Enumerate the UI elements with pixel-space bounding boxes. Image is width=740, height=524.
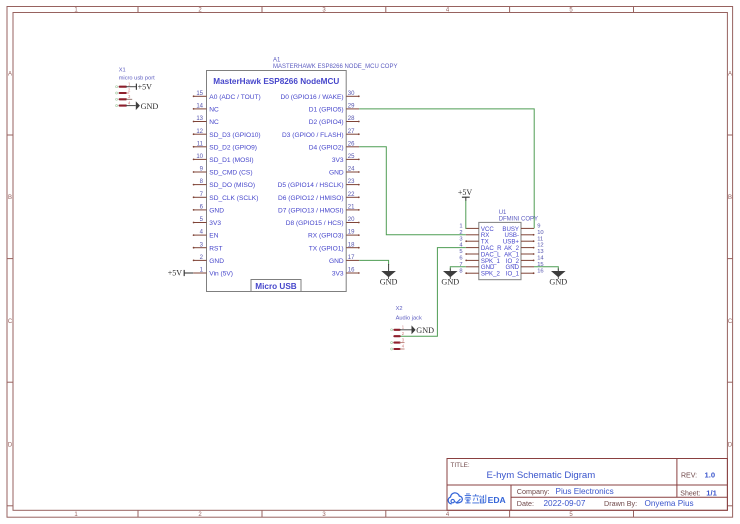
title block field Sheet (680, 488, 717, 497)
title block field TITLE (451, 462, 596, 481)
svg-text:13: 13 (196, 116, 203, 122)
U1 pin 5 (DAC_L) (459, 249, 501, 258)
svg-text:21: 21 (348, 205, 355, 211)
svg-text:12: 12 (537, 243, 543, 249)
svg-text:B: B (8, 195, 12, 201)
svg-text:MasterHawk ESP8266 NodeMCU: MasterHawk ESP8266 NodeMCU (213, 77, 339, 86)
svg-text:23: 23 (348, 179, 355, 185)
X2 pin 3 (391, 337, 405, 343)
A1 pin 24 (GND) (329, 167, 360, 177)
A1 pin 21 (D7 (GPIO13 / HMOSI)) (278, 205, 360, 215)
title block (447, 459, 727, 511)
svg-text:GND: GND (209, 208, 224, 215)
A1 pin 13 (NC) (193, 116, 219, 126)
svg-text:EN: EN (209, 233, 218, 240)
svg-text:12: 12 (196, 129, 203, 135)
svg-text:+5V: +5V (168, 269, 183, 278)
svg-text:3V3: 3V3 (209, 220, 221, 227)
ground flag GND on X1 pin 4 (126, 101, 158, 111)
svg-text:24: 24 (348, 167, 355, 173)
title block field Company (517, 487, 614, 496)
svg-text:1: 1 (459, 224, 462, 230)
svg-text:SD_D3 (GPIO10): SD_D3 (GPIO10) (209, 132, 260, 139)
svg-text:1.0: 1.0 (705, 471, 716, 480)
svg-text:16: 16 (348, 268, 355, 274)
svg-text:RST: RST (209, 245, 222, 252)
X1 pin 3 (116, 94, 133, 100)
U1 pin 1 (VCC) (459, 224, 494, 233)
A1 pin 4 (EN) (193, 230, 219, 240)
svg-text:D7 (GPIO13 / HMOSI): D7 (GPIO13 / HMOSI) (278, 208, 344, 215)
svg-text:3V3: 3V3 (332, 271, 344, 278)
svg-text:D: D (728, 442, 733, 448)
U1 pin 8 (SPK_2) (459, 268, 500, 277)
svg-text:20: 20 (348, 217, 355, 223)
U1 pin 3 (TX) (459, 236, 488, 245)
svg-text:D8 (GPIO15 / HCS): D8 (GPIO15 / HCS) (286, 220, 344, 227)
svg-text:17: 17 (348, 255, 355, 261)
wire net: A1 pin 26 D4 to U1 pin 2 RX (359, 147, 466, 235)
svg-text:NC: NC (209, 119, 219, 126)
svg-text:3V3: 3V3 (332, 157, 344, 164)
Micro USB sub-symbol box (251, 280, 301, 292)
wire: +5V flag to U1 pin 1 VCC (465, 201, 468, 229)
svg-text:Vin (5V): Vin (5V) (209, 271, 233, 278)
wire net: U1 pin 4 DAC_R to X2 pin 2 (400, 248, 466, 337)
svg-text:GND: GND (329, 258, 344, 265)
X1 pin 1 (116, 81, 131, 87)
U1 pin 14 (IO_2) (506, 256, 545, 265)
A1 pin 8 (SD_DO (MISO)) (193, 179, 255, 189)
svg-text:SD_CLK (SCLK): SD_CLK (SCLK) (209, 195, 258, 202)
U1 pin 9 (BUSY) (502, 224, 540, 233)
X1 pin 2 (116, 88, 131, 94)
svg-text:11: 11 (197, 141, 204, 147)
U1 pin 12 (AK_2) (504, 243, 544, 252)
A1 pin 1 (Vin (5V)) (193, 268, 233, 278)
svg-text:TX (GPIO1): TX (GPIO1) (309, 245, 344, 252)
svg-text:16: 16 (537, 268, 543, 274)
svg-text:1/1: 1/1 (706, 488, 717, 497)
svg-text:micro usb port: micro usb port (119, 75, 155, 81)
svg-text:2022-09-07: 2022-09-07 (544, 499, 586, 508)
A1 pin 10 (SD_D1 (MOSI)) (193, 154, 254, 164)
svg-text:C: C (8, 319, 13, 325)
svg-text:A1: A1 (273, 57, 281, 63)
svg-text:+5V: +5V (138, 82, 153, 91)
X2 pin 1 (391, 325, 405, 331)
svg-text:Audio jack: Audio jack (396, 315, 422, 321)
svg-text:10: 10 (537, 230, 543, 236)
svg-text:14: 14 (196, 104, 203, 110)
svg-text:SD_CMD (CS): SD_CMD (CS) (209, 170, 252, 177)
A1 pin 25 (3V3) (332, 154, 360, 164)
wire net: A1 pin 29 D1 to U1 pin 9 BUSY (359, 109, 534, 228)
svg-text:3: 3 (459, 236, 462, 242)
wire: U1 pin 7 GND to ground symbol (450, 267, 466, 270)
svg-text:GND: GND (380, 277, 398, 286)
A1 pin 9 (SD_CMD (CS)) (193, 167, 253, 177)
A1 pin 15 (A0 (ADC / TOUT)) (193, 91, 261, 101)
svg-text:D5 (GPIO14 / HSCLK): D5 (GPIO14 / HSCLK) (278, 182, 344, 189)
A1 pin 28 (D2 (GPIO4)) (309, 116, 360, 126)
svg-text:GND: GND (141, 102, 159, 111)
A1 pin 23 (D5 (GPIO14 / HSCLK)) (278, 179, 360, 189)
svg-text:28: 28 (348, 116, 355, 122)
svg-text:REV:: REV: (681, 473, 697, 480)
A1 pin 30 (D0 (GPIO16 / WAKE)) (280, 91, 359, 101)
svg-text:GND: GND (329, 170, 344, 177)
svg-text:A0 (ADC / TOUT): A0 (ADC / TOUT) (209, 94, 260, 101)
svg-text:SD_DO (MISO): SD_DO (MISO) (209, 182, 255, 189)
svg-text:13: 13 (537, 249, 543, 255)
svg-text:D4 (GPIO2): D4 (GPIO2) (309, 144, 344, 151)
power flag +5V on X1 pin 1 (126, 82, 152, 91)
svg-text:Pius Electronics: Pius Electronics (556, 487, 614, 496)
A1 pin 26 (D4 (GPIO2)) (309, 141, 359, 151)
U1 pin 11 (USB+) (503, 236, 543, 245)
svg-text:26: 26 (348, 141, 355, 147)
A1 pin 5 (3V3) (193, 217, 222, 227)
svg-text:30: 30 (348, 91, 355, 97)
A1 pin 27 (D3 (GPIO0 / FLASH)) (282, 129, 360, 139)
power flag +5V above U1 VCC (458, 188, 473, 201)
svg-text:SPK_2: SPK_2 (481, 271, 501, 278)
A1 pin 7 (SD_CLK (SCLK)) (193, 192, 259, 202)
svg-text:D: D (8, 442, 13, 448)
connector X1 micro usb port (119, 68, 155, 82)
svg-text:+5V: +5V (458, 188, 473, 197)
svg-text:14: 14 (537, 256, 544, 262)
svg-text:D2 (GPIO4): D2 (GPIO4) (309, 119, 344, 126)
ground symbol below A1 (380, 264, 398, 286)
svg-text:B: B (728, 195, 732, 201)
svg-text:RX (GPIO3): RX (GPIO3) (308, 233, 344, 240)
svg-text:11: 11 (537, 236, 543, 242)
ic A1 MasterHawk ESP8266 NodeMCU (207, 57, 398, 291)
connector X2 Audio jack (396, 306, 422, 321)
svg-text:25: 25 (348, 154, 355, 160)
svg-text:9: 9 (537, 224, 540, 230)
svg-text:A: A (728, 72, 732, 78)
svg-text:19: 19 (348, 230, 355, 236)
svg-text:2: 2 (459, 230, 462, 236)
svg-text:GND: GND (549, 277, 567, 286)
svg-text:EDA: EDA (488, 495, 506, 505)
ic U1 DFMINI COPY (479, 210, 538, 279)
U1 pin 4 (DAC_R) (459, 243, 502, 252)
svg-text:DFMINI COPY: DFMINI COPY (499, 217, 538, 223)
svg-text:X1: X1 (119, 68, 126, 74)
svg-text:GND: GND (209, 258, 224, 265)
svg-text:NC: NC (209, 107, 219, 114)
title block field REV (681, 471, 715, 480)
ground flag GND on X2 pin 1 (400, 325, 434, 335)
ground symbol left of U1 (441, 269, 459, 287)
svg-text:6: 6 (459, 256, 462, 262)
wire: A1 pin 17 GND to ground symbol (359, 260, 388, 265)
svg-text:MASTERHAWK ESP8266 NODE_MCU CO: MASTERHAWK ESP8266 NODE_MCU COPY (273, 64, 397, 70)
svg-text:IO_1: IO_1 (506, 271, 520, 278)
A1 pin 12 (SD_D3 (GPIO10)) (193, 129, 261, 139)
svg-text:10: 10 (196, 154, 203, 160)
svg-text:Drawn By:: Drawn By: (604, 499, 637, 508)
svg-text:GND: GND (416, 326, 434, 335)
U1 pin 15 (GND) (505, 262, 543, 271)
X1 pin 4 (116, 100, 131, 106)
title block field Date / Drawn By (517, 499, 694, 508)
A1 pin 19 (RX (GPIO3)) (308, 230, 360, 240)
A1 pin 29 (D1 (GPIO5)) (309, 104, 359, 114)
A1 pin 14 (NC) (193, 104, 219, 114)
A1 pin 3 (RST) (193, 242, 223, 252)
svg-text:E-hym Schematic Digram: E-hym Schematic Digram (487, 470, 596, 481)
svg-text:8: 8 (459, 268, 462, 274)
ground symbol right of U1 (549, 269, 567, 287)
A1 pin 20 (D8 (GPIO15 / HCS)) (286, 217, 360, 227)
U1 pin 13 (AK_1) (504, 249, 544, 258)
A1 pin 18 (TX (GPIO1)) (309, 242, 360, 252)
svg-text:Company:: Company: (517, 487, 550, 496)
svg-text:Date:: Date: (517, 499, 534, 508)
svg-text:SD_D1 (MOSI): SD_D1 (MOSI) (209, 157, 253, 164)
svg-text:29: 29 (348, 104, 355, 110)
svg-text:27: 27 (348, 129, 355, 135)
X2 pin 2 (394, 331, 404, 336)
svg-text:GND: GND (441, 277, 459, 286)
svg-text:TITLE:: TITLE: (451, 462, 470, 469)
U1 pin 16 (IO_1) (506, 268, 544, 277)
A1 pin 6 (GND) (193, 205, 224, 215)
A1 pin 22 (D6 (GPIO12 / HMISO)) (278, 192, 360, 202)
svg-text:U1: U1 (499, 210, 507, 216)
EasyEDA logo (448, 493, 506, 505)
A1 pin 2 (GND) (193, 255, 224, 265)
svg-text:SD_D2 (GPIO9): SD_D2 (GPIO9) (209, 144, 257, 151)
power flag +5V on A1 pin 1 (Vin) (168, 269, 193, 278)
svg-text:Onyema Pius: Onyema Pius (645, 499, 694, 508)
svg-text:D1 (GPIO5): D1 (GPIO5) (309, 107, 344, 114)
U1 pin 10 (USB-) (504, 230, 543, 239)
A1 pin 16 (3V3) (332, 268, 360, 278)
svg-text:D3 (GPIO0 / FLASH): D3 (GPIO0 / FLASH) (282, 132, 344, 139)
svg-text:15: 15 (196, 91, 203, 97)
A1 pin 17 (GND) (329, 255, 359, 265)
svg-text:22: 22 (348, 192, 355, 198)
U1 pin 7 (GND) (459, 262, 495, 271)
svg-text:D0 (GPIO16 / WAKE): D0 (GPIO16 / WAKE) (280, 94, 343, 101)
svg-text:D6 (GPIO12 / HMISO): D6 (GPIO12 / HMISO) (278, 195, 344, 202)
svg-text:A: A (8, 72, 12, 78)
svg-text:Sheet:: Sheet: (680, 490, 700, 497)
wire: U1 pin 15 GND to ground symbol (534, 267, 558, 270)
svg-text:5: 5 (459, 249, 462, 255)
U1 pin 2 (RX) (459, 230, 489, 239)
A1 pin 11 (SD_D2 (GPIO9)) (193, 141, 257, 151)
svg-text:C: C (728, 319, 733, 325)
svg-text:18: 18 (348, 242, 355, 248)
U1 pin 6 (SPK_1) (459, 256, 500, 265)
svg-text:Micro USB: Micro USB (255, 282, 296, 291)
X2 pin 4 (391, 344, 405, 350)
svg-text:X2: X2 (396, 306, 403, 312)
